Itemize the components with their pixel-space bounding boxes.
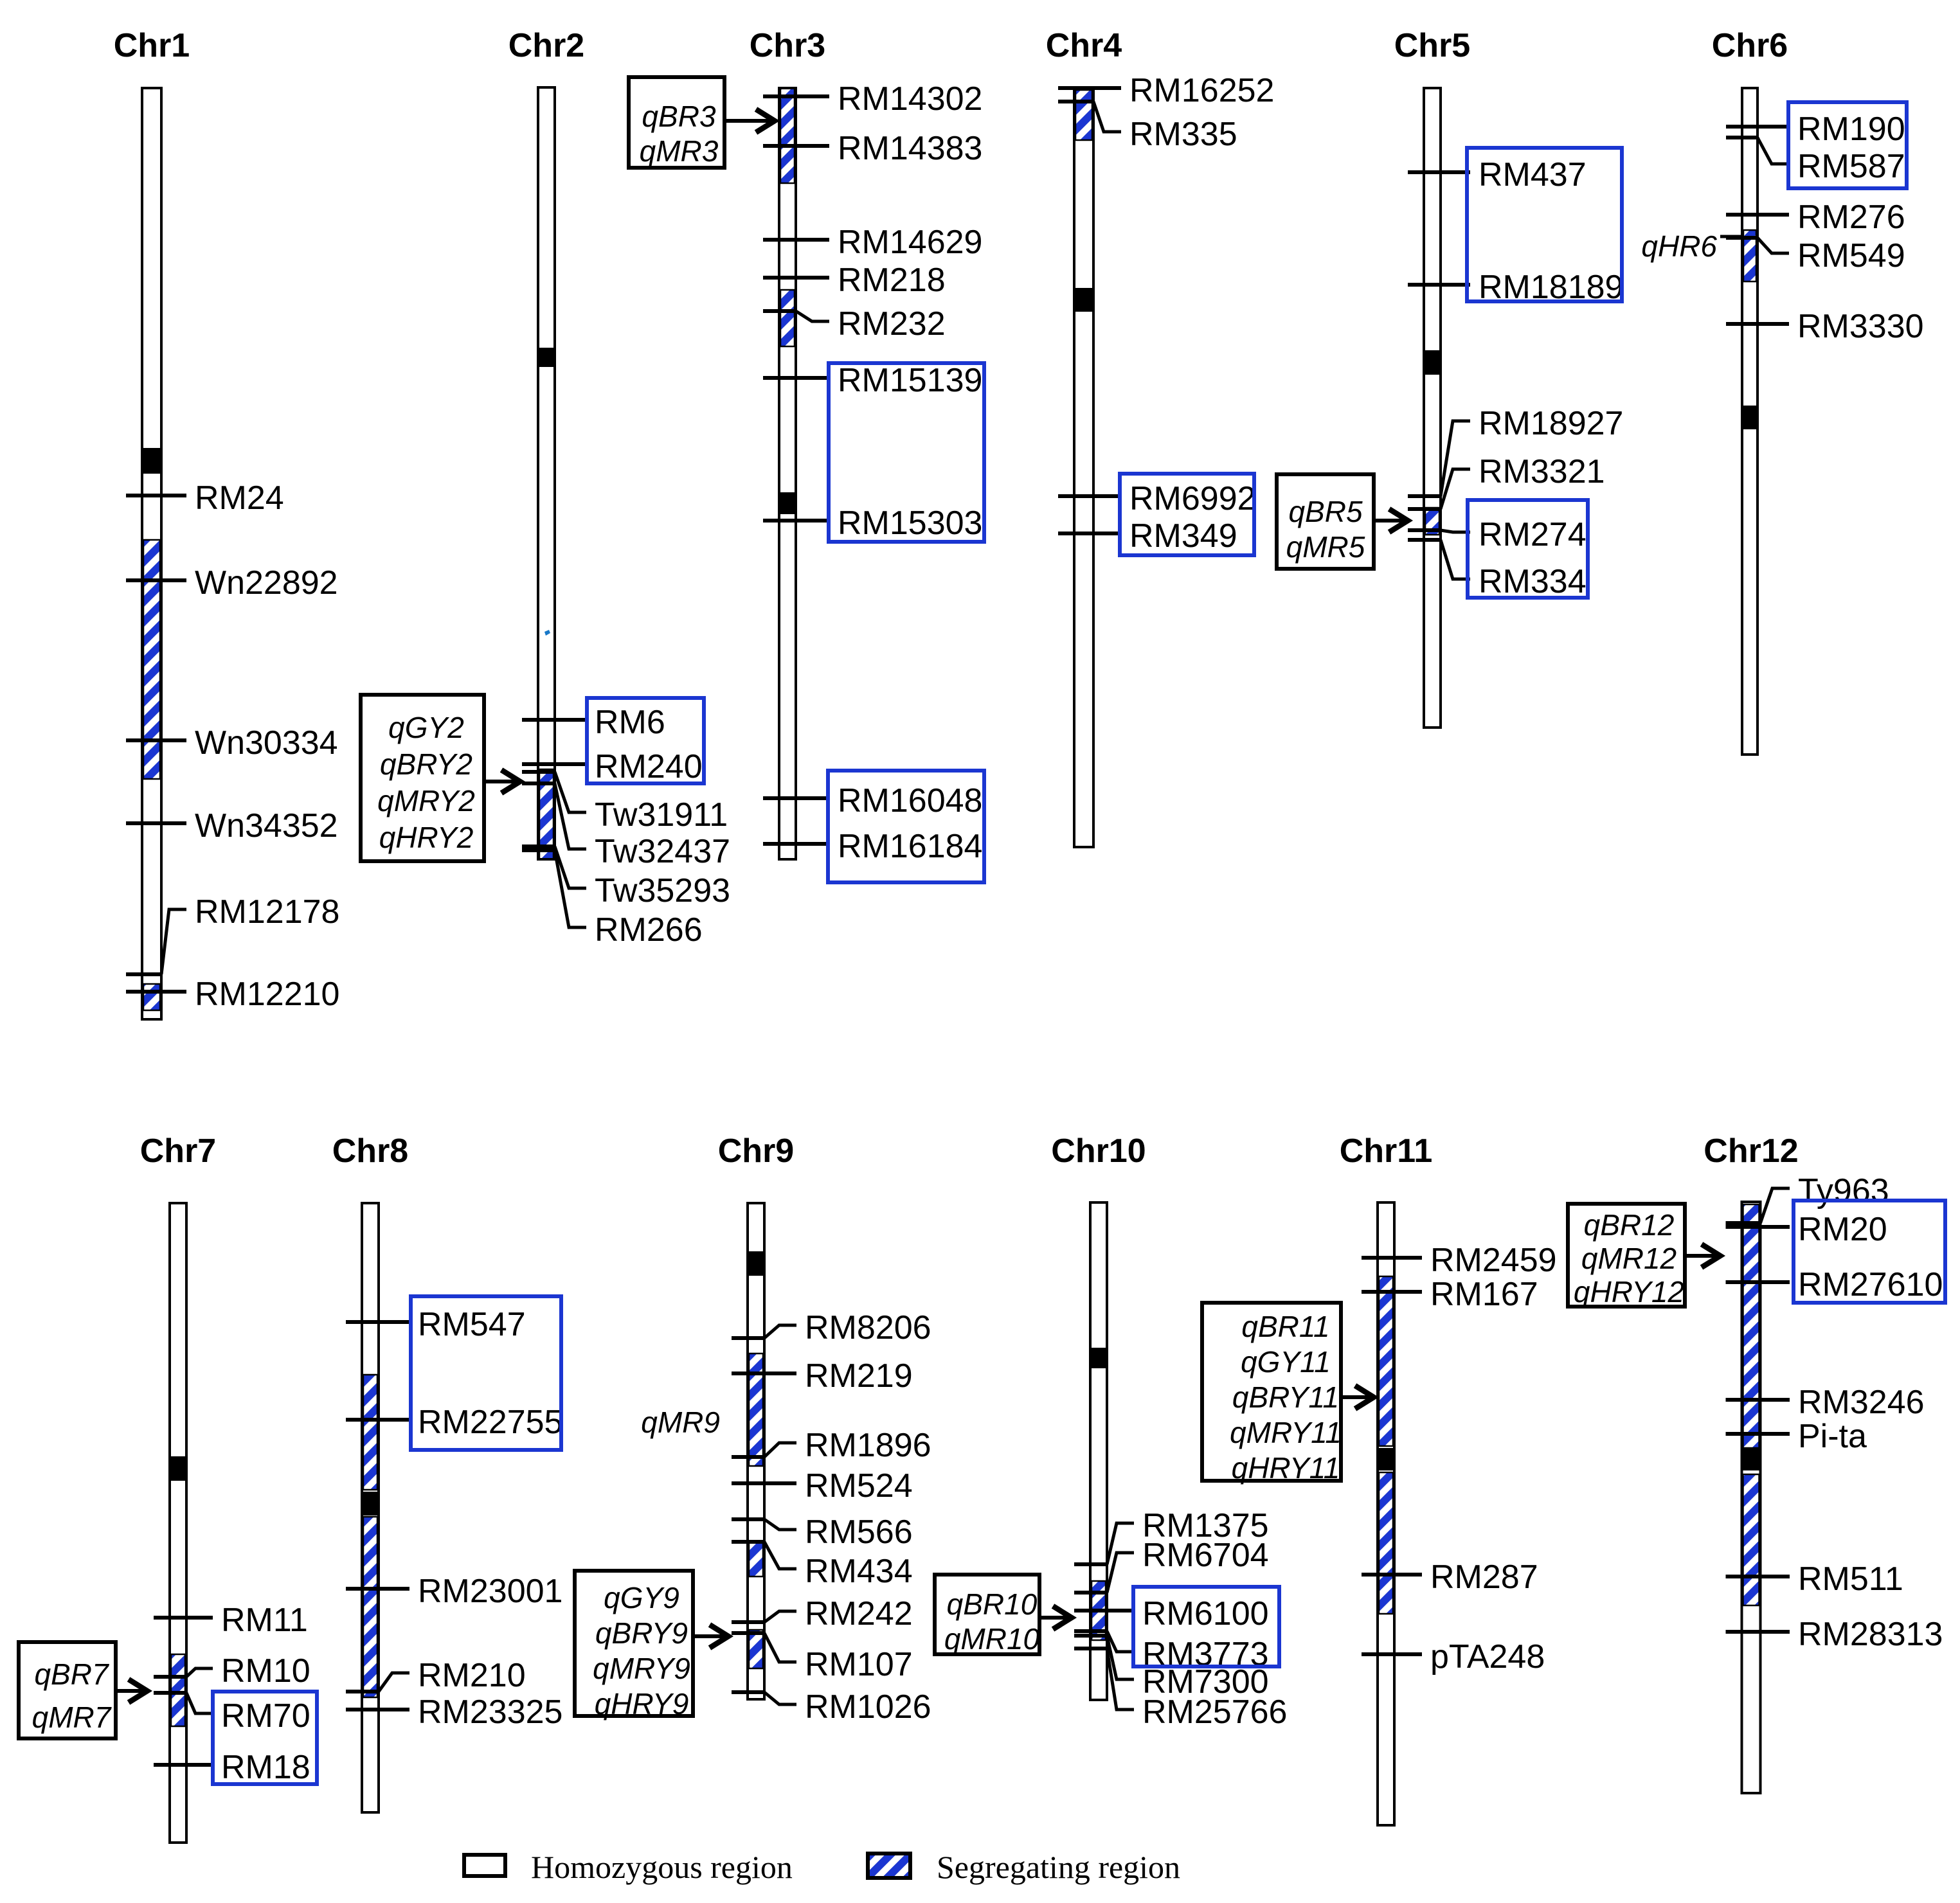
svg-text:RM587: RM587 [1797,148,1905,185]
svg-text:RM24: RM24 [195,479,284,517]
marker RM549 on Chr6 [1726,237,1905,274]
svg-text:RM25766: RM25766 [1142,1693,1287,1731]
svg-text:Wn34352: Wn34352 [195,807,338,844]
arrow from qBR12 group [1685,1244,1720,1267]
svg-text:RM12178: RM12178 [195,893,339,931]
legend segregating swatch [868,1854,910,1878]
marker RM3773 on Chr10 [1074,1631,1269,1673]
svg-text:Tw35293: Tw35293 [595,872,730,909]
marker Wn22892 on Chr1 [126,564,338,602]
svg-text:qHRY12: qHRY12 [1574,1275,1684,1309]
svg-text:RM14629: RM14629 [838,224,982,261]
svg-text:RM27610: RM27610 [1798,1266,1943,1303]
svg-text:qBR3: qBR3 [642,100,715,133]
svg-text:Chr9: Chr9 [718,1132,794,1170]
svg-text:RM15303: RM15303 [838,505,982,542]
chromosome Chr1 bar [142,88,161,1019]
svg-text:qGY11: qGY11 [1241,1345,1331,1379]
marker RM14629 on Chr3 [763,224,982,261]
svg-text:Chr10: Chr10 [1051,1132,1146,1170]
svg-text:qHR6: qHR6 [1641,229,1717,263]
svg-text:Chr1: Chr1 [114,27,190,64]
svg-text:RM349: RM349 [1129,517,1237,555]
chromosome Chr7 bar [170,1203,186,1843]
marker RM219 on Chr9 [732,1357,913,1395]
svg-text:Chr4: Chr4 [1046,27,1122,64]
svg-text:RM14302: RM14302 [838,80,982,118]
svg-text:RM287: RM287 [1430,1559,1538,1596]
svg-text:qGY9: qGY9 [604,1581,679,1614]
svg-text:RM276: RM276 [1797,199,1905,236]
svg-text:qBR10: qBR10 [947,1587,1038,1621]
marker RM22755 on Chr8 [346,1404,562,1441]
marker RM14302 on Chr3 [763,80,982,118]
marker RM335 on Chr4 [1058,102,1237,153]
marker RM349 on Chr4 [1058,517,1237,555]
svg-text:qMRY11: qMRY11 [1230,1416,1342,1449]
chromosome Chr8 bar [362,1203,379,1812]
svg-text:qBRY2: qBRY2 [380,747,472,781]
marker RM16252 on Chr4 [1058,72,1274,109]
chromosome Chr10 bar [1090,1202,1107,1700]
svg-text:qMR10: qMR10 [944,1622,1040,1656]
marker RM107 on Chr9 [732,1633,913,1683]
svg-text:RM524: RM524 [805,1467,913,1505]
marker RM242 on Chr9 [732,1595,913,1632]
svg-text:RM434: RM434 [805,1553,913,1590]
arrow from qBR7 group [116,1679,147,1702]
marker RM334 on Chr5 [1408,540,1587,600]
blue box RM6992/RM349 [1120,474,1254,555]
arrow from qBR5 group [1374,509,1408,532]
marker RM276 on Chr6 [1726,199,1905,236]
svg-text:RM167: RM167 [1430,1276,1538,1313]
blue box RM437/RM18189 [1467,148,1622,301]
blue box RM15139/RM15303 [829,363,984,542]
stray blue speck on Chr2 [544,630,550,636]
svg-text:RM190: RM190 [1797,111,1905,148]
svg-text:RM232: RM232 [838,305,946,343]
marker RM18927 on Chr5 [1408,405,1623,496]
svg-text:RM1896: RM1896 [805,1427,931,1464]
marker RM14383 on Chr3 [763,130,982,167]
marker Ty963 on Chr12 [1726,1172,1889,1223]
marker RM12178 on Chr1 [126,893,339,974]
svg-text:RM3330: RM3330 [1797,308,1924,345]
blue box RM20/RM27610 [1794,1201,1945,1303]
svg-text:qMR5: qMR5 [1286,530,1365,564]
QTL box qGY9 group [575,1571,693,1720]
svg-text:qHRY11: qHRY11 [1232,1451,1340,1485]
svg-text:Tw31911: Tw31911 [595,796,728,834]
svg-text:Tw32437: Tw32437 [595,833,730,870]
marker RM218 on Chr3 [763,262,946,299]
marker RM25766 on Chr10 [1074,1648,1287,1731]
marker Tw31911 on Chr2 [522,772,728,834]
marker RM28313 on Chr12 [1726,1616,1943,1653]
marker RM1026 on Chr9 [732,1688,931,1726]
marker RM266 on Chr2 [522,850,703,949]
svg-text:RM16048: RM16048 [838,782,982,819]
svg-text:qBRY11: qBRY11 [1232,1380,1339,1414]
svg-text:qHRY2: qHRY2 [379,821,474,854]
svg-text:qMRY2: qMRY2 [377,784,475,817]
svg-text:RM10: RM10 [221,1652,310,1690]
chromosome Chr2 bar [538,87,555,859]
chromosome Chr3 bar [779,88,796,859]
blue box RM70/RM18 [213,1692,317,1784]
chromosome Chr12 bar [1742,1202,1761,1793]
marker RM70 on Chr7 [154,1693,310,1735]
svg-text:RM3246: RM3246 [1798,1384,1925,1421]
marker RM23001 on Chr8 [346,1573,562,1610]
svg-text:RM28313: RM28313 [1798,1616,1943,1653]
marker RM18 on Chr7 [154,1749,310,1786]
svg-text:Chr12: Chr12 [1704,1132,1798,1170]
svg-text:RM6100: RM6100 [1142,1595,1269,1632]
QTL box qGY2 group [361,695,484,861]
QTL box qBR3 group [629,77,724,168]
marker RM6992 on Chr4 [1058,480,1256,517]
svg-text:RM511: RM511 [1798,1560,1903,1598]
blue box RM6100/RM3773 [1133,1587,1279,1666]
svg-text:RM70: RM70 [221,1697,310,1735]
chromosome Chr5 bar [1424,88,1441,728]
svg-text:qHRY9: qHRY9 [595,1687,689,1720]
svg-text:qBR5: qBR5 [1288,495,1362,528]
svg-text:Chr11: Chr11 [1340,1132,1433,1170]
chromosome Chr9 bar [748,1203,764,1699]
svg-text:qBR12: qBR12 [1584,1208,1675,1242]
marker RM3321 on Chr5 [1408,453,1605,509]
marker RM27610 on Chr12 [1726,1266,1943,1303]
svg-text:RM11: RM11 [221,1602,308,1639]
marker RM8206 on Chr9 [732,1309,931,1346]
svg-text:qMR3: qMR3 [640,134,719,168]
svg-text:qMR9: qMR9 [641,1406,720,1439]
marker RM16184 on Chr3 [763,828,982,865]
svg-text:RM23001: RM23001 [418,1573,562,1610]
marker RM274 on Chr5 [1408,516,1587,553]
label qHR6 [1641,229,1742,263]
marker RM23325 on Chr8 [346,1693,562,1731]
marker RM20 on Chr12 [1726,1211,1887,1248]
svg-text:RM3321: RM3321 [1479,453,1605,490]
arrow from qBR11 group [1341,1386,1374,1409]
QTL box qBR7 group [19,1642,116,1738]
svg-text:qMRY9: qMRY9 [593,1652,690,1685]
marker RM24 on Chr1 [126,479,284,517]
svg-text:qBR7: qBR7 [34,1657,109,1691]
marker RM3330 on Chr6 [1726,308,1924,345]
marker RM10 on Chr7 [154,1652,310,1690]
marker RM1375 on Chr10 [1074,1507,1269,1564]
QTL box qBR5 group [1277,474,1374,569]
svg-text:Chr5: Chr5 [1394,27,1470,64]
legend homozygous swatch [464,1855,505,1876]
marker RM6100 on Chr10 [1074,1595,1269,1632]
marker RM7300 on Chr10 [1074,1636,1269,1701]
chromosome Chr4 bar [1074,88,1093,847]
svg-text:RM210: RM210 [418,1657,526,1694]
svg-text:RM12210: RM12210 [195,976,339,1013]
svg-text:RM549: RM549 [1797,237,1905,274]
marker RM6704 on Chr10 [1074,1537,1269,1593]
marker RM1896 on Chr9 [732,1427,931,1464]
marker pTA248 on Chr11 [1362,1638,1545,1675]
marker RM3246 on Chr12 [1726,1384,1925,1421]
svg-text:Ty963: Ty963 [1798,1172,1889,1210]
svg-text:RM16184: RM16184 [838,828,982,865]
svg-text:RM18: RM18 [221,1749,310,1786]
blue box RM16048/RM16184 [828,771,984,882]
svg-text:RM6704: RM6704 [1142,1537,1269,1574]
arrow from qGY2 group [484,770,520,793]
svg-text:Chr8: Chr8 [332,1132,408,1170]
svg-text:RM437: RM437 [1479,156,1587,193]
marker RM547 on Chr8 [346,1306,526,1343]
chromosome Chr11 bar [1378,1202,1394,1825]
svg-text:Homozygous region: Homozygous region [531,1849,793,1885]
marker RM11 on Chr7 [154,1602,308,1639]
QTL box qBR10 group [935,1575,1040,1656]
marker RM167 on Chr11 [1362,1276,1538,1313]
svg-text:RM334: RM334 [1479,563,1587,600]
svg-text:RM6: RM6 [595,704,665,741]
svg-text:RM2459: RM2459 [1430,1242,1557,1279]
marker Tw35293 on Chr2 [522,846,730,909]
marker RM524 on Chr9 [732,1467,913,1505]
svg-text:RM6992: RM6992 [1129,480,1256,517]
svg-text:qBR11: qBR11 [1241,1310,1329,1343]
svg-text:Wn22892: Wn22892 [195,564,338,602]
marker RM240 on Chr2 [522,748,703,785]
QTL box qBR11 group [1202,1303,1342,1485]
marker RM210 on Chr8 [346,1657,526,1694]
arrow from qGY9 group [693,1625,728,1648]
marker RM18189 on Chr5 [1408,269,1623,306]
marker RM437 on Chr5 [1408,156,1587,193]
marker RM587 on Chr6 [1726,138,1905,185]
arrow from qBR10 group [1039,1606,1072,1629]
svg-text:qGY2: qGY2 [388,711,464,744]
chromosome Chr6 bar [1742,88,1758,755]
svg-text:RM335: RM335 [1129,116,1237,153]
svg-text:RM219: RM219 [805,1357,913,1395]
svg-text:pTA248: pTA248 [1430,1638,1545,1675]
marker RM15303 on Chr3 [763,505,982,542]
arrow from qBR3 group [724,109,775,132]
svg-text:RM16252: RM16252 [1129,72,1274,109]
svg-text:RM566: RM566 [805,1514,913,1551]
marker RM232 on Chr3 [763,305,946,343]
svg-text:RM8206: RM8206 [805,1309,931,1346]
svg-text:RM242: RM242 [805,1595,913,1632]
svg-text:Chr6: Chr6 [1712,27,1788,64]
svg-text:qMR7: qMR7 [32,1701,112,1734]
blue box RM6/RM240 [587,698,704,783]
svg-text:Chr2: Chr2 [508,27,584,64]
marker RM12210 on Chr1 [126,976,339,1013]
svg-text:Chr7: Chr7 [140,1132,216,1170]
svg-text:Chr3: Chr3 [750,27,825,64]
svg-text:RM266: RM266 [595,911,703,949]
marker Pi-ta on Chr12 [1726,1418,1867,1455]
svg-text:RM274: RM274 [1479,516,1587,553]
marker RM15139 on Chr3 [763,362,982,399]
svg-text:RM1026: RM1026 [805,1688,931,1726]
marker Tw32437 on Chr2 [522,783,730,870]
svg-text:qBRY9: qBRY9 [595,1616,688,1650]
svg-text:Pi-ta: Pi-ta [1798,1418,1867,1455]
svg-text:RM547: RM547 [418,1306,526,1343]
svg-text:RM20: RM20 [1798,1211,1887,1248]
svg-text:RM23325: RM23325 [418,1693,562,1731]
svg-text:qMR12: qMR12 [1581,1242,1677,1275]
marker RM287 on Chr11 [1362,1559,1538,1596]
marker RM566 on Chr9 [732,1514,913,1551]
marker RM434 on Chr9 [732,1542,913,1590]
svg-text:RM15139: RM15139 [838,362,982,399]
marker RM511 on Chr12 [1726,1560,1903,1598]
svg-text:RM107: RM107 [805,1646,913,1683]
svg-text:RM18927: RM18927 [1479,405,1623,442]
marker Wn34352 on Chr1 [126,807,338,844]
svg-text:Segregating region: Segregating region [937,1849,1180,1885]
marker RM16048 on Chr3 [763,782,982,819]
svg-text:RM218: RM218 [838,262,946,299]
blue box RM547/RM22755 [411,1296,561,1450]
blue box RM274/RM334 [1468,500,1588,598]
marker Wn30334 on Chr1 [126,724,338,762]
blue box RM190/RM587 [1788,102,1907,188]
marker RM6 on Chr2 [522,704,665,741]
svg-text:RM14383: RM14383 [838,130,982,167]
QTL box qBR12 group [1568,1204,1685,1309]
marker RM190 on Chr6 [1726,111,1905,148]
svg-text:Wn30334: Wn30334 [195,724,338,762]
svg-text:RM22755: RM22755 [418,1404,562,1441]
marker RM2459 on Chr11 [1362,1242,1557,1279]
svg-text:RM240: RM240 [595,748,703,785]
